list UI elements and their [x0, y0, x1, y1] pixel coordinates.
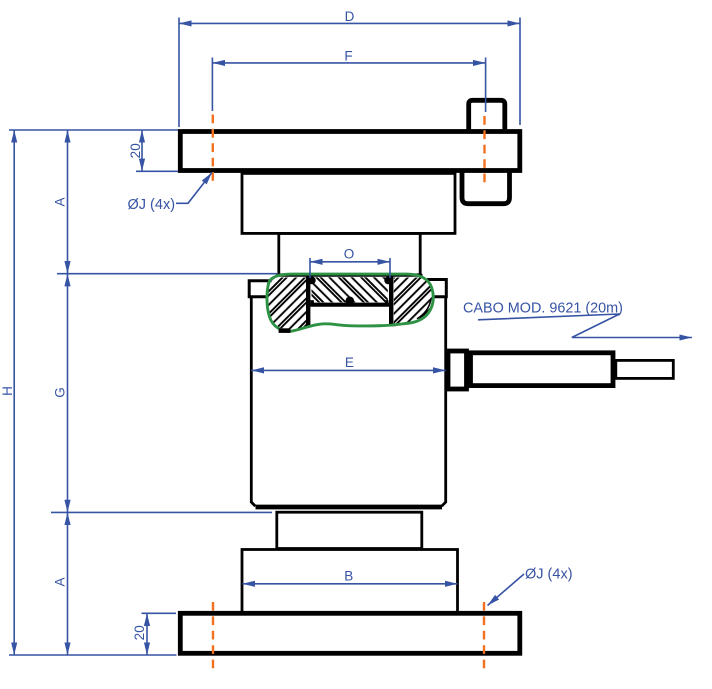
load cell body left wall [250, 297, 253, 504]
body bottom thick edge [256, 505, 443, 510]
spacer tier 1 [242, 173, 455, 233]
bolt head top right [469, 100, 505, 131]
dimension O line [310, 261, 390, 263]
centerline orange bottom right [483, 602, 485, 670]
extension line top 20 lower [136, 170, 178, 172]
extension line plate bottom level [9, 654, 177, 656]
right hatch bottom dark arc [417, 300, 431, 319]
dimension F left extension [211, 58, 213, 112]
load cell right lip [427, 280, 446, 297]
cable connector barrel [471, 353, 614, 386]
dimension O right extension [389, 258, 391, 278]
svg-text:G: G [53, 387, 68, 398]
load cell left lip [249, 281, 271, 297]
dimension H line [13, 130, 15, 655]
dimension O left extension [309, 258, 311, 278]
cable [616, 360, 674, 378]
nut below top plate [462, 171, 510, 204]
center block bottom hook left [310, 300, 314, 305]
dimension D right extension [519, 18, 521, 126]
right hatch block fill [394, 278, 434, 327]
cable leader underline and arrow [478, 314, 692, 338]
svg-text:B: B [344, 569, 353, 584]
extension line body top level [57, 273, 277, 275]
center hatch block fill [312, 277, 388, 302]
green seal outline [267, 274, 433, 331]
svg-text:A: A [53, 197, 68, 206]
dimension B line [242, 583, 457, 585]
extension line plate top level [9, 129, 178, 131]
svg-text:O: O [344, 247, 355, 262]
dimension F right extension [485, 58, 487, 113]
svg-text:20: 20 [128, 143, 143, 158]
right hatch block left edge [389, 276, 393, 326]
tier 4 bottom block [242, 550, 458, 613]
svg-text:A: A [53, 577, 68, 586]
dimension A top line [67, 130, 69, 274]
dimension D line [179, 22, 520, 24]
centerline orange top right [483, 116, 485, 185]
leader OJ top left [176, 173, 212, 204]
dimension A bottom line [67, 512, 69, 655]
body bottom chamfer left [251, 502, 255, 506]
center block bottom thick line [310, 303, 389, 307]
svg-text:H: H [0, 386, 15, 396]
dimension G line [67, 274, 69, 513]
ball [346, 297, 355, 306]
leader OJ bottom right [488, 574, 525, 606]
spacer tier 2 [279, 233, 420, 274]
corner pocket right [384, 277, 392, 285]
svg-text:F: F [344, 49, 352, 64]
left hatch block right edge [306, 276, 310, 327]
body top edge line [276, 274, 423, 277]
dimension E line [251, 369, 445, 371]
cable connector collar [448, 351, 467, 389]
corner pocket left [308, 277, 316, 285]
svg-text:E: E [345, 355, 354, 370]
body bottom chamfer right [442, 502, 446, 506]
dimension F line [212, 62, 485, 64]
center block bottom hook right [385, 300, 389, 305]
centerline orange top left [212, 115, 214, 185]
dimension 20 bottom line [146, 613, 148, 655]
svg-text:20: 20 [132, 625, 147, 640]
extension line bottom 20 upper [142, 612, 177, 614]
centerline orange bottom left [212, 602, 214, 670]
left hatch block bottom cap [279, 328, 291, 333]
tier 3 below body [277, 512, 422, 548]
dimension 20 top line [141, 130, 143, 171]
top plate [180, 132, 520, 171]
svg-text:ØJ (4x): ØJ (4x) [525, 567, 573, 583]
bottom plate [180, 613, 520, 653]
svg-text:ØJ (4x): ØJ (4x) [128, 197, 176, 213]
load cell body right wall [444, 297, 447, 504]
dimension D left extension [178, 18, 180, 128]
left hatch block fill [266, 278, 306, 331]
svg-text:D: D [345, 9, 355, 24]
extension line body bottom level [51, 511, 272, 513]
